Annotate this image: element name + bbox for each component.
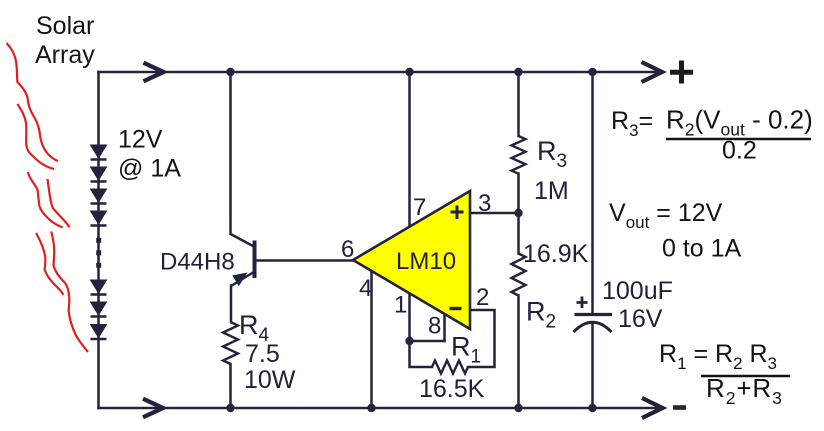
- svg-text:R1: R1: [451, 332, 481, 368]
- op-amp U1 minus input symbol: [450, 307, 462, 310]
- svg-text:16.5K: 16.5K: [419, 375, 485, 403]
- solar ray squiggle 6: [51, 232, 88, 353]
- diode D1: [91, 145, 107, 160]
- wire R3 bottom / R2 top: [517, 174, 520, 254]
- current arrow on bottom rail: [143, 399, 163, 418]
- wire pin1 junction down to R1: [410, 341, 433, 367]
- diode D4: [91, 211, 107, 226]
- wire R4 bottom: [229, 364, 232, 408]
- diode D2: [91, 167, 107, 182]
- svg-text:6: 6: [341, 236, 354, 263]
- svg-text:3: 3: [478, 190, 491, 217]
- output arrow negative: [642, 398, 663, 418]
- wire U1 pin 4 to bottom rail: [370, 271, 373, 408]
- diode D3: [91, 189, 107, 204]
- solar ray squiggle 4: [48, 179, 70, 227]
- svg-text:4: 4: [359, 275, 372, 302]
- svg-text:LM10: LM10: [396, 248, 456, 275]
- svg-text:R2(Vout - 0.2): R2(Vout - 0.2): [666, 105, 813, 140]
- svg-text:R2+R3: R2+R3: [706, 373, 783, 408]
- wire pin1-pin8 tie: [410, 340, 445, 343]
- solar ray squiggle 2: [17, 104, 54, 169]
- svg-text:@ 1A: @ 1A: [118, 155, 181, 183]
- svg-text:7: 7: [413, 194, 426, 221]
- output terminal minus symbol: [673, 405, 686, 410]
- op-amp U1 plus input symbol: [451, 206, 464, 220]
- svg-text:1M: 1M: [534, 177, 569, 205]
- resistor R3 zigzag: [512, 136, 526, 174]
- wire R1 right to pin2 loop: [468, 310, 495, 367]
- diode D6: [91, 302, 107, 317]
- transistor Q1 emitter lead with arrow: [231, 273, 253, 287]
- svg-text:0.2: 0.2: [722, 137, 757, 165]
- svg-text:R1 = R2 R3: R1 = R2 R3: [659, 340, 777, 373]
- svg-text:2: 2: [476, 284, 489, 311]
- wire Q1 base to U1 pin 6: [256, 259, 353, 262]
- current arrow on top rail: [144, 63, 164, 82]
- junction top rail / R3: [514, 68, 522, 76]
- wire bottom rail: [99, 407, 663, 410]
- svg-text:R3=: R3=: [611, 107, 653, 140]
- junction bottom rail / R4: [226, 404, 234, 412]
- junction top rail / Q1 collector: [226, 68, 234, 76]
- svg-text:10W: 10W: [244, 366, 296, 394]
- output terminal plus symbol: [670, 61, 693, 84]
- resistor R2 zigzag: [512, 254, 526, 296]
- capacitor C1 curved bottom plate: [574, 322, 612, 332]
- junction top rail / pin 7: [405, 68, 413, 76]
- resistor R1 zigzag: [432, 361, 468, 374]
- diode D5: [91, 280, 107, 295]
- output arrow positive: [642, 62, 663, 82]
- wire R3 top: [517, 72, 520, 136]
- transistor Q1 D44H8 base bar: [253, 241, 257, 279]
- wire Q1 collector branch: [231, 72, 254, 246]
- wire C1 bottom: [591, 323, 594, 408]
- svg-text:1: 1: [394, 292, 407, 319]
- transistor Q1 emitter arrowhead: [232, 273, 247, 287]
- capacitor C1 polarity plus: [577, 297, 588, 309]
- capacitor C1 top plate: [575, 313, 613, 316]
- formula R1 fraction bar: [701, 375, 790, 377]
- diode D7: [91, 325, 107, 340]
- wire C1 top: [591, 72, 594, 314]
- junction pin1-pin8 node: [405, 337, 413, 345]
- svg-text:16V: 16V: [618, 305, 663, 333]
- svg-text:Vout = 12V: Vout = 12V: [609, 199, 723, 232]
- solar ray squiggle 5: [36, 233, 63, 295]
- junction top rail / C1: [588, 68, 596, 76]
- wire left vertical (solar array string): [97, 72, 100, 408]
- junction bottom rail / pin 4: [367, 404, 375, 412]
- svg-text:Solar: Solar: [36, 12, 94, 40]
- svg-text:D44H8: D44H8: [160, 249, 235, 276]
- wire U1 pin 8: [443, 314, 446, 341]
- wire R2 bottom: [517, 296, 520, 409]
- junction bottom rail / R2: [514, 404, 522, 412]
- svg-text:0 to 1A: 0 to 1A: [662, 235, 742, 263]
- wire top rail: [99, 71, 662, 74]
- svg-text:8: 8: [428, 313, 441, 340]
- solar ray squiggle 1: [7, 43, 59, 161]
- junction pin3 / R3-R2 node: [514, 209, 522, 217]
- solar ray squiggle 3: [28, 172, 63, 227]
- svg-text:R2: R2: [526, 297, 556, 333]
- wire U1 pin 7 supply: [408, 72, 411, 226]
- formula R3 fraction bar: [666, 138, 811, 140]
- ellipsis dots of diode string: [96, 238, 101, 268]
- svg-text:100uF: 100uF: [602, 277, 673, 305]
- op-amp U1 LM10 triangle: [353, 191, 470, 329]
- svg-text:16.9K: 16.9K: [523, 240, 589, 268]
- svg-text:Array: Array: [35, 41, 95, 69]
- svg-text:7.5: 7.5: [245, 340, 280, 368]
- wire U1 pin 1: [408, 293, 411, 341]
- resistor R4 zigzag: [223, 322, 238, 364]
- wire Q1 emitter to R4: [230, 286, 233, 323]
- svg-text:12V: 12V: [118, 126, 163, 154]
- junction bottom rail / C1: [588, 404, 596, 412]
- svg-text:R3: R3: [537, 136, 567, 172]
- wire U1 pin 3 to R3/R2 node: [470, 212, 519, 215]
